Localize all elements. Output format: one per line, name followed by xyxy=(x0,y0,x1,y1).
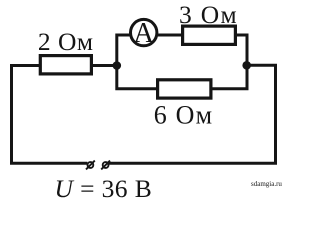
wire: main wire from R1 to node A xyxy=(91,64,117,67)
svg-text:2 Ом: 2 Ом xyxy=(38,27,94,56)
wire: bottom branch from node A down to R3 xyxy=(117,66,158,89)
wire: bottom-right and outer loop right side xyxy=(108,65,275,163)
wire: top branch from node A up and to ammeter xyxy=(117,35,131,66)
svg-text:6 Ом: 6 Ом xyxy=(154,101,214,130)
wire: ammeter to R2 xyxy=(157,34,183,37)
node B (right junction) xyxy=(242,61,251,70)
svg-text:sdamgia.ru: sdamgia.ru xyxy=(251,180,282,188)
svg-text:А: А xyxy=(133,18,154,49)
node A (left junction) xyxy=(113,61,122,70)
wire: outer loop left side and bottom-left xyxy=(12,66,88,164)
resistor R1 2 Ом xyxy=(40,56,91,74)
ammeter U1 circle xyxy=(131,19,157,45)
terminal T2 xyxy=(101,161,110,170)
wire: R2 to right node xyxy=(236,35,248,65)
terminal T1 xyxy=(86,161,95,170)
svg-text:U = 36 В: U = 36 В xyxy=(55,174,153,203)
resistor R2 3 Ом xyxy=(183,26,236,44)
resistor R3 6 Ом xyxy=(158,80,211,98)
svg-text:3 Ом: 3 Ом xyxy=(179,0,238,29)
wire: R3 to right node xyxy=(211,65,247,88)
